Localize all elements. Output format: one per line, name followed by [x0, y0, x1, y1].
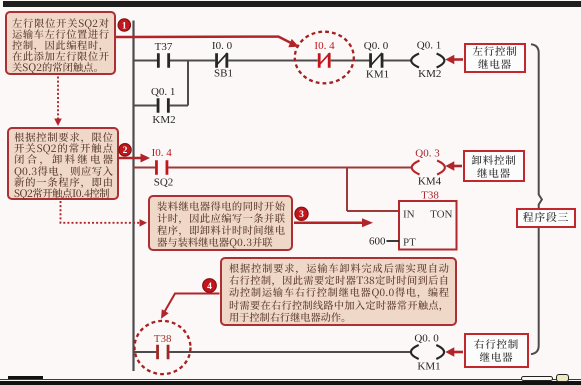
- svg-text:KM2: KM2: [152, 114, 175, 126]
- svg-text:SQ2: SQ2: [154, 177, 174, 189]
- svg-text:4: 4: [207, 282, 212, 292]
- svg-text:T37: T37: [155, 41, 173, 53]
- svg-text:IN: IN: [403, 209, 415, 221]
- svg-text:1: 1: [122, 21, 127, 31]
- svg-text:KM4: KM4: [418, 176, 442, 188]
- svg-text:Q0. 0: Q0. 0: [364, 40, 389, 52]
- svg-text:Q0. 0: Q0. 0: [414, 333, 439, 345]
- svg-text:KM2: KM2: [418, 68, 441, 80]
- svg-text:I0. 0: I0. 0: [212, 40, 233, 52]
- svg-text:2: 2: [123, 146, 128, 156]
- svg-text:I0. 4: I0. 4: [152, 147, 173, 159]
- svg-text:600: 600: [369, 236, 386, 248]
- svg-text:T38: T38: [154, 333, 172, 345]
- svg-text:KM1: KM1: [366, 69, 389, 81]
- svg-text:T38: T38: [421, 190, 439, 202]
- svg-text:Q0. 1: Q0. 1: [417, 40, 441, 52]
- svg-text:Q0. 1: Q0. 1: [151, 86, 175, 98]
- svg-text:Q0. 3: Q0. 3: [415, 148, 440, 160]
- svg-text:SB1: SB1: [214, 68, 233, 80]
- svg-text:I0. 4: I0. 4: [314, 40, 335, 52]
- svg-text:PT: PT: [403, 237, 416, 249]
- svg-text:TON: TON: [430, 209, 452, 221]
- svg-text:3: 3: [299, 210, 304, 220]
- svg-text:KM1: KM1: [417, 361, 440, 373]
